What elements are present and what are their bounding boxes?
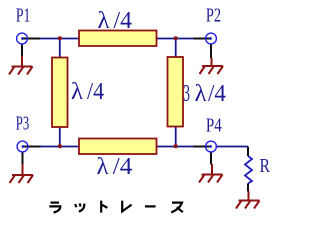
svg-text:/4: /4 — [208, 81, 226, 107]
svg-text:λ: λ — [71, 79, 83, 105]
svg-text:R: R — [260, 155, 271, 177]
svg-text:/4: /4 — [87, 79, 104, 105]
svg-text:λ: λ — [97, 154, 109, 180]
svg-text:P3: P3 — [16, 113, 29, 135]
svg-text:/4: /4 — [113, 154, 133, 180]
svg-text:P1: P1 — [16, 5, 31, 27]
svg-text:P4: P4 — [206, 114, 222, 136]
svg-text:λ: λ — [195, 81, 207, 107]
svg-text:P2: P2 — [206, 5, 221, 27]
svg-text:3: 3 — [183, 81, 190, 107]
svg-text:/4: /4 — [114, 8, 133, 34]
svg-text:λ: λ — [98, 8, 110, 34]
